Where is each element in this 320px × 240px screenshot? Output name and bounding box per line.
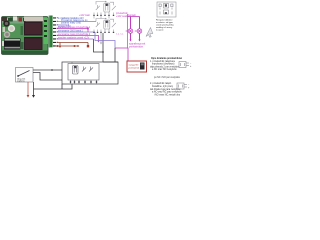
svg-text:Opis działania przekaźników: Opis działania przekaźników — [151, 58, 182, 60]
connector icon 2 — [177, 83, 187, 89]
icon 1 polarity labels — [190, 63, 192, 68]
svg-text:dają obwody 2 par zestyków,: dają obwody 2 par zestyków, — [150, 65, 180, 68]
wire main down A — [94, 39, 104, 52]
svg-text:po NC i NO par zestyków: po NC i NO par zestyków — [154, 76, 180, 79]
row 7 wire — [57, 38, 94, 40]
svg-text:wspólne zasilanie cewek +12V: wspólne zasilanie cewek +12V — [58, 38, 90, 40]
pointer arrow — [146, 28, 153, 38]
switch S1 box — [16, 68, 34, 83]
svg-text:i NO wraz NC zestyki obu: i NO wraz NC zestyki obu — [154, 93, 181, 96]
notes paragraph 2 — [150, 82, 182, 96]
svg-text:sygnalizacja zał.: sygnalizacja zał. — [129, 44, 146, 46]
svg-text:2. przekaźniki załącz.: 2. przekaźniki załącz. — [150, 82, 172, 85]
pin micro labels — [57, 17, 58, 42]
wire pin bus gray — [100, 33, 102, 45]
wire main down B — [102, 33, 104, 62]
label K1 coil (magenta) — [116, 12, 129, 18]
relay K3 — [71, 66, 97, 84]
row 8 wire — [57, 43, 90, 49]
svg-text:zapłonu: zapłonu — [17, 80, 25, 82]
row 2 wire — [57, 19, 97, 24]
junction dot switch wire — [51, 69, 53, 71]
relay K2 — [94, 18, 116, 33]
PCB module photo — [2, 17, 49, 55]
svg-text:żarówki: żarówki — [128, 14, 136, 17]
wire switch step — [33, 73, 62, 81]
row 6 wire — [57, 33, 100, 43]
svg-text:sterowanie masą przekaźnika 1: sterowanie masą przekaźnika 1 — [58, 26, 91, 29]
row 3 wire — [57, 24, 72, 29]
svg-text:bistabilne, tryb pracy: bistabilne, tryb pracy — [152, 85, 174, 88]
notes paragraph 1 — [150, 60, 180, 79]
svg-text:sterowanie GND kanał 2: sterowanie GND kanał 2 — [58, 30, 84, 33]
note text under pinout box — [156, 18, 175, 31]
wire to frame right — [103, 61, 118, 63]
svg-text:tak działa 2-ga para zestyków,: tak działa 2-ga para zestyków, — [150, 88, 181, 91]
wire relay bus right (magenta) — [127, 14, 129, 48]
node stubs at lamps — [126, 30, 137, 32]
relay K3 module box — [68, 62, 99, 80]
terminal strip pins — [53, 17, 56, 46]
wire switch bottom black — [33, 82, 35, 95]
svg-text:przekaźników: przekaźników — [129, 45, 143, 48]
wire battery red — [27, 82, 29, 95]
relay K3 block frame — [62, 62, 118, 84]
svg-text:a NO oraz NC pary zestyków: a NO oraz NC pary zestyków — [152, 91, 182, 94]
relay K2 pin ticks — [93, 32, 114, 33]
wire interrelay stubs — [94, 16, 109, 19]
lamp L2 — [137, 29, 142, 34]
svg-text:n.o. n.z.: n.o. n.z. — [116, 34, 124, 36]
row 4 wire — [57, 26, 91, 32]
svg-text:podaniu masy GND: podaniu masy GND — [61, 23, 81, 25]
warning box — [127, 61, 147, 72]
svg-text:przekaźniki: przekaźniki — [116, 12, 128, 15]
svg-text:a NC oraz NO zestyków: a NC oraz NO zestyków — [152, 68, 177, 71]
arrow ground black — [32, 95, 35, 98]
svg-text:przekaźnik: przekaźnik — [129, 67, 140, 70]
label lamp bus top (magenta) — [128, 14, 136, 17]
svg-text:impulsowo (chwilowo): impulsowo (chwilowo) — [152, 64, 175, 66]
relay K1 pin ticks — [93, 15, 114, 16]
svg-text:sterowanie masą przekaźnika 2: sterowanie masą przekaźnika 2 — [58, 33, 91, 36]
info box relay pinout — [157, 2, 176, 17]
lamp wire arrows — [129, 40, 140, 42]
junction dot — [102, 51, 104, 53]
wire violet to lamps — [95, 32, 115, 48]
icon 2 polarity labels — [188, 85, 190, 90]
label lamp bus bottom (magenta) — [129, 44, 146, 49]
arrow battery red — [27, 95, 30, 98]
row 5 wire — [57, 30, 96, 33]
lamp L1 — [128, 29, 133, 34]
wire feed to K3 — [114, 48, 116, 62]
label +12V node (magenta) — [79, 15, 91, 17]
terminal strip J1 — [49, 16, 53, 48]
svg-text:uwaga filtr: uwaga filtr — [129, 63, 139, 66]
row 9 wire — [55, 45, 80, 47]
wire magenta link — [115, 48, 128, 61]
wire lamp bus top (magenta) — [128, 16, 140, 18]
notes title — [151, 58, 182, 60]
lamp wire B (magenta) — [139, 17, 141, 40]
row 1 wire — [57, 18, 85, 20]
label relay2 contacts (magenta) — [116, 34, 124, 36]
svg-text:w aucie: w aucie — [156, 29, 164, 31]
relay K3 pin labels — [70, 81, 97, 83]
connector icon 1 — [179, 62, 189, 68]
svg-text:+12V zasil.: +12V zasil. — [79, 15, 91, 17]
relay K1 — [94, 1, 116, 16]
lamp wire A (magenta) — [130, 17, 132, 40]
wire bottom return — [34, 84, 73, 89]
wire switch to relay top — [33, 69, 62, 71]
svg-text:1. przekaźniki załączane: 1. przekaźniki załączane — [150, 60, 176, 63]
